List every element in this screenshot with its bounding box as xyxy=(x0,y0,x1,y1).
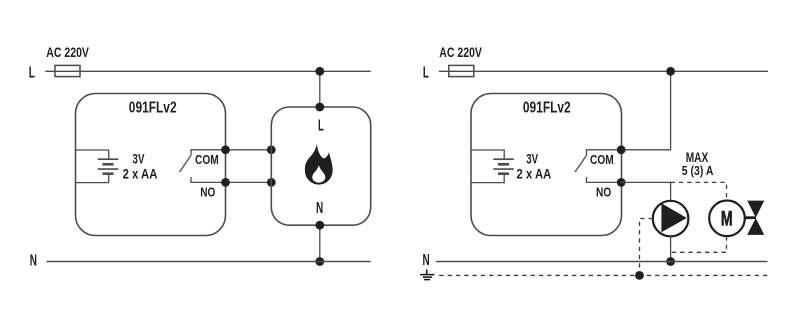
svg-text:5 (3) A: 5 (3) A xyxy=(682,163,714,178)
junction COM right xyxy=(617,145,626,154)
svg-text:N: N xyxy=(423,252,430,269)
svg-text:091FLv2: 091FLv2 xyxy=(523,100,571,117)
svg-text:3V: 3V xyxy=(526,152,538,167)
svg-text:L: L xyxy=(423,64,429,81)
dashed wire NO to motor xyxy=(671,182,727,200)
earth symbol xyxy=(420,270,434,280)
junction boiler top xyxy=(315,103,324,112)
svg-text:091FLv2: 091FLv2 xyxy=(129,100,177,117)
wire COM up to L xyxy=(621,71,670,150)
svg-text:AC 220V: AC 220V xyxy=(46,45,89,60)
valve V1 xyxy=(747,201,764,235)
svg-text:L: L xyxy=(318,117,324,134)
svg-text:2 x AA: 2 x AA xyxy=(517,167,552,182)
wire N line right xyxy=(436,261,768,263)
fuse F2 right xyxy=(449,65,474,76)
boiler box xyxy=(271,107,370,225)
wire L line left xyxy=(45,70,370,72)
svg-text:2 x AA: 2 x AA xyxy=(123,167,158,182)
svg-text:COM: COM xyxy=(195,153,219,167)
junction on N line left xyxy=(315,257,324,266)
svg-text:M: M xyxy=(721,207,733,230)
motor M1 xyxy=(709,201,745,237)
dashed wire pump earth xyxy=(640,219,653,276)
thermostat box 091FLv2 left xyxy=(76,94,226,236)
junction earth dashed xyxy=(635,271,644,280)
svg-text:NO: NO xyxy=(200,186,215,200)
battery BT2 right xyxy=(471,150,514,183)
junction on L line left xyxy=(315,67,324,76)
wire COM to boiler xyxy=(226,149,272,151)
junction NO at boiler xyxy=(267,178,276,187)
svg-text:N: N xyxy=(30,253,37,270)
valve connector xyxy=(745,216,756,219)
svg-text:NO: NO xyxy=(596,186,611,200)
junction on L line right xyxy=(666,67,675,76)
junction COM at thermostat xyxy=(221,145,230,154)
wire boiler bottom to N xyxy=(319,225,321,261)
dashed wire motor return xyxy=(671,236,727,252)
flame icon boiler xyxy=(305,144,333,185)
wire L line right xyxy=(439,70,768,72)
svg-text:COM: COM xyxy=(590,153,614,167)
svg-text:N: N xyxy=(316,200,323,217)
wire pump to N xyxy=(670,236,672,261)
wire NO to boiler xyxy=(226,181,272,183)
junction pump on N xyxy=(666,257,675,266)
svg-text:3V: 3V xyxy=(133,152,145,167)
wire L drop to boiler xyxy=(319,71,321,107)
dashed earth line xyxy=(439,274,768,276)
battery BT1 left xyxy=(76,150,119,183)
pump P1 xyxy=(653,201,689,237)
svg-text:AC 220V: AC 220V xyxy=(439,45,482,60)
thermostat box 091FLv2 right xyxy=(471,94,622,236)
relay switch right xyxy=(575,150,621,183)
junction COM at boiler xyxy=(267,145,276,154)
junction boiler bottom xyxy=(315,221,324,230)
wire N line left xyxy=(47,261,371,263)
relay switch left xyxy=(180,150,226,183)
junction NO at thermostat xyxy=(221,178,230,187)
wire NO to pump xyxy=(621,182,670,200)
junction NO right xyxy=(617,178,626,187)
fuse F1 left xyxy=(55,65,80,76)
svg-text:L: L xyxy=(29,64,35,81)
